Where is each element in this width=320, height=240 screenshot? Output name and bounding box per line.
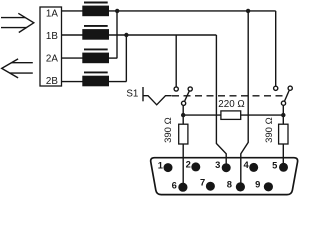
svg-text:2A: 2A [46, 54, 58, 65]
resistor 390 ohm left [179, 124, 188, 144]
incoming signal arrow (top, pointing right) [1, 13, 34, 32]
wire 1B drop to left switch contact [175, 35, 177, 87]
wire joining 1A and 2A [116, 11, 118, 58]
svg-text:390 Ω: 390 Ω [264, 117, 275, 143]
wire 1A drop to right switch contact [275, 11, 277, 86]
wire A-line down to pin 8 [241, 11, 248, 183]
DB9 pin 7 [206, 182, 215, 191]
svg-text:2B: 2B [46, 76, 58, 87]
DB9 pin 6 [178, 183, 187, 192]
choke L4 (2B) [83, 72, 108, 85]
junction dot 1A/2A [115, 9, 119, 13]
DB9 pin 2 [191, 162, 200, 171]
wire stub 2A [62, 57, 84, 59]
wire stub 1A [62, 10, 84, 12]
wire 220 ohm to right node [241, 114, 284, 116]
wire 2B horizontal [108, 81, 126, 83]
DB9 pin 9 [264, 182, 273, 191]
svg-text:220 Ω: 220 Ω [218, 99, 244, 110]
resistor 390 ohm right [279, 124, 288, 144]
resistor 220 ohm [221, 111, 241, 120]
DB9 connector shell [151, 158, 298, 195]
svg-text:S1: S1 [126, 89, 138, 100]
wire left pole to termination node [182, 105, 184, 124]
wire right pole to termination node [282, 105, 284, 124]
terminal box 1A/1B/2A/2B [40, 7, 62, 86]
wire 390 ohm left to pin 6 [182, 144, 184, 183]
wire 1B horizontal bus [108, 34, 216, 36]
switch S1 left pole blade [185, 90, 190, 101]
svg-text:390 Ω: 390 Ω [163, 117, 174, 143]
DB9 pin 8 [236, 182, 245, 191]
junction dot 1A/pin8 drop [246, 9, 250, 13]
svg-text:1B: 1B [46, 31, 58, 42]
DB9 pin 5 [279, 163, 288, 172]
mechanical coupling dashed line [172, 95, 287, 97]
svg-text:7: 7 [200, 177, 205, 188]
svg-text:6: 6 [172, 179, 177, 190]
svg-text:4: 4 [243, 159, 249, 170]
choke L1 (1A) [83, 3, 108, 16]
svg-text:5: 5 [272, 160, 277, 171]
wire stub 2B [62, 81, 84, 83]
svg-text:1A: 1A [46, 9, 58, 20]
junction dot left termination node [181, 113, 185, 117]
wire termination node to 220 ohm [183, 114, 221, 116]
choke L2 (1B) [83, 26, 108, 39]
wire stub 1B [62, 34, 84, 36]
switch S1 left pole contacts [174, 87, 192, 106]
junction dot 1B/2B [124, 33, 128, 37]
wire 2A horizontal [108, 57, 117, 59]
wire B-line down to pin 3 [216, 35, 226, 164]
outgoing signal arrow (bottom, pointing left) [2, 59, 33, 78]
wire joining 1B and 2B [125, 35, 127, 82]
svg-text:3: 3 [215, 159, 220, 170]
junction dot right termination node [281, 113, 285, 117]
svg-text:2: 2 [186, 159, 191, 170]
DB9 pin 4 [249, 163, 258, 172]
switch S1 right pole contacts [274, 86, 293, 105]
DB9 pin 3 [222, 163, 231, 172]
switch S1 lever [143, 87, 172, 105]
DB9 pin 1 [164, 163, 173, 172]
svg-text:8: 8 [227, 179, 232, 190]
svg-text:9: 9 [255, 178, 260, 189]
choke L3 (2A) [83, 49, 108, 62]
switch S1 right pole blade [284, 90, 289, 101]
svg-text:1: 1 [158, 160, 163, 171]
wire 1A horizontal bus [108, 10, 275, 12]
wire 390 ohm right to pin 5 [282, 145, 284, 164]
